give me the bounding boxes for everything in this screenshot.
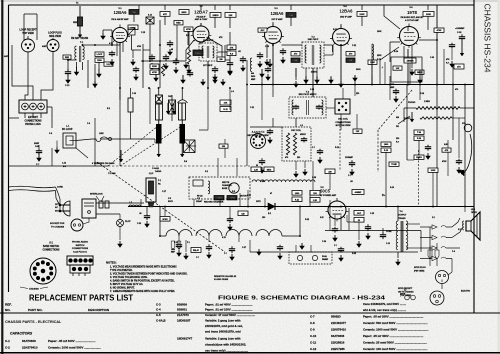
svg-text:K=1000 OHMS: K=1000 OHMS xyxy=(214,279,229,281)
svg-text:1ST IF AMP: 1ST IF AMP xyxy=(271,18,283,21)
svg-text:BASE: BASE xyxy=(222,187,228,190)
svg-text:LOOP PLUG: LOOP PLUG xyxy=(48,33,62,35)
svg-text:100MMF: 100MMF xyxy=(345,157,354,159)
svg-text:RED: RED xyxy=(73,22,78,24)
svg-text:C-9: C-9 xyxy=(310,328,315,332)
svg-text:MEG: MEG xyxy=(196,53,201,55)
svg-text:CHANGER: CHANGER xyxy=(222,184,232,187)
svg-text:C-22: C-22 xyxy=(352,45,356,47)
svg-text:PRONG LUGS: PRONG LUGS xyxy=(25,124,41,126)
svg-text:470K: 470K xyxy=(437,29,442,32)
svg-text:NOTES:: NOTES: xyxy=(106,261,117,265)
svg-text:20MF: 20MF xyxy=(34,143,40,145)
svg-text:21A7373: 21A7373 xyxy=(177,313,189,317)
svg-text:C-13: C-13 xyxy=(62,163,66,165)
svg-text:Paper: .01 mf 100V .........: Paper: .01 mf 100V .....................… xyxy=(205,308,253,312)
svg-text:CHASSIS PARTS - ELECTRICAL: CHASSIS PARTS - ELECTRICAL xyxy=(5,320,62,324)
svg-text:C-17: C-17 xyxy=(162,191,166,193)
svg-text:SPKR: SPKR xyxy=(471,212,477,214)
svg-text:0.15: 0.15 xyxy=(320,217,324,219)
svg-text:Y-2 S-2A: Y-2 S-2A xyxy=(108,172,116,175)
svg-text:C-35: C-35 xyxy=(370,213,374,215)
svg-text:A-1,2,3 & T-4: A-1,2,3 & T-4 xyxy=(252,131,265,134)
svg-text:DESCRIPTION: DESCRIPTION xyxy=(88,308,110,312)
svg-text:C-21: C-21 xyxy=(250,107,254,109)
svg-text:1MEG: 1MEG xyxy=(212,15,218,17)
svg-text:470K: 470K xyxy=(152,71,157,74)
svg-text:2ND IF AMP: 2ND IF AMP xyxy=(340,16,352,19)
svg-text:SOCKET FOR: SOCKET FOR xyxy=(50,223,65,225)
svg-text:RECORD CHANGER: RECORD CHANGER xyxy=(204,201,224,204)
svg-text:C-36: C-36 xyxy=(322,241,326,243)
svg-text:.05: .05 xyxy=(238,51,241,53)
svg-text:19T8: 19T8 xyxy=(407,10,418,15)
svg-text:84AT0606: 84AT0606 xyxy=(331,334,345,338)
svg-text:4700: 4700 xyxy=(137,45,141,48)
svg-text:220: 220 xyxy=(297,157,300,159)
svg-text:RESISTOR VALUES IN: RESISTOR VALUES IN xyxy=(214,275,237,278)
svg-text:22K: 22K xyxy=(228,15,232,17)
svg-text:PART NO.: PART NO. xyxy=(28,308,43,312)
svg-text:C-2: C-2 xyxy=(5,346,10,350)
svg-text:Ceramic: 1000 mmf 500V ......: Ceramic: 1000 mmf 500V .................… xyxy=(363,328,429,332)
svg-text:19D69174T: 19D69174T xyxy=(177,337,192,341)
svg-text:220K: 220K xyxy=(377,55,382,57)
svg-text:47K: 47K xyxy=(445,149,449,152)
svg-text:PILOT: PILOT xyxy=(125,221,131,223)
svg-text:BAND SWITCH: BAND SWITCH xyxy=(43,245,60,248)
svg-text:21K481377: 21K481377 xyxy=(331,321,346,325)
svg-text:10K: 10K xyxy=(349,60,353,62)
svg-text:OSC COIL: OSC COIL xyxy=(291,130,302,132)
svg-text:150: 150 xyxy=(262,217,265,219)
svg-text:osc trans only) ..............: osc trans only) ........................… xyxy=(205,349,248,353)
svg-text:Paper: .05 mf 200V .........: Paper: .05 mf 200V .....................… xyxy=(363,315,423,319)
svg-text:R-13: R-13 xyxy=(335,147,339,149)
svg-text:C-33: C-33 xyxy=(137,223,141,225)
svg-text:C-5: C-5 xyxy=(156,313,161,317)
svg-text:C-26: C-26 xyxy=(260,181,264,183)
svg-text:RP-2A: RP-2A xyxy=(197,195,203,198)
svg-text:REF.: REF. xyxy=(5,303,12,307)
svg-text:Paper: .01 mf 400V .........: Paper: .01 mf 400V .....................… xyxy=(205,303,253,307)
svg-text:3.2: 3.2 xyxy=(432,217,435,219)
svg-text:220: 220 xyxy=(356,93,359,95)
svg-text:Ceramic: 100 mmf 500V .......: Ceramic: 100 mmf 500V ..................… xyxy=(363,347,428,351)
svg-text:+: + xyxy=(381,65,384,70)
svg-text:AMP: AMP xyxy=(42,45,47,48)
svg-text:68: 68 xyxy=(171,49,173,51)
svg-text:RED: RED xyxy=(65,57,70,59)
svg-text:100K: 100K xyxy=(370,62,375,64)
svg-text:BOTTOM VIEW: BOTTOM VIEW xyxy=(336,125,351,127)
svg-text:C-8: C-8 xyxy=(49,133,52,135)
svg-text:100K: 100K xyxy=(426,14,432,16)
svg-text:TRANS: TRANS xyxy=(398,217,406,220)
svg-text:FM AUDIO DET, AM DET: FM AUDIO DET, AM DET xyxy=(401,16,425,19)
svg-text:C-7: C-7 xyxy=(310,315,315,319)
svg-text:1 MEG: 1 MEG xyxy=(424,101,430,103)
svg-text:AMP & CONV: AMP & CONV xyxy=(195,18,208,21)
svg-text:470K: 470K xyxy=(186,28,191,31)
svg-text:CONNECTIONS: CONNECTIONS xyxy=(25,120,42,122)
svg-text:P-1: P-1 xyxy=(187,242,190,244)
svg-text:L-6: L-6 xyxy=(231,91,234,93)
svg-text:3.2: 3.2 xyxy=(458,229,461,231)
svg-text:ELECTRO: ELECTRO xyxy=(461,291,471,293)
svg-text:100K: 100K xyxy=(377,31,382,33)
svg-text:21K678410: 21K678410 xyxy=(331,328,346,332)
svg-text:47: 47 xyxy=(270,192,272,195)
svg-text:ZENER: ZENER xyxy=(407,61,414,63)
svg-text:SPKR RECEPT: SPKR RECEPT xyxy=(398,288,413,290)
svg-text:C-?: C-? xyxy=(334,245,337,247)
svg-text:21BV7286: 21BV7286 xyxy=(331,347,345,351)
svg-text:47K: 47K xyxy=(163,13,167,16)
svg-text:C-1: C-1 xyxy=(5,339,10,343)
svg-text:L-5: L-5 xyxy=(300,125,303,127)
svg-text:P-1: P-1 xyxy=(158,180,161,182)
svg-text:10K: 10K xyxy=(224,103,228,105)
svg-text:BC LOOP: BC LOOP xyxy=(62,129,73,131)
svg-text:CHASSIS HS-234: CHASSIS HS-234 xyxy=(483,4,492,74)
svg-text:8S9801: 8S9801 xyxy=(177,308,187,312)
svg-text:470K: 470K xyxy=(442,160,447,163)
svg-text:455KC: 455KC xyxy=(300,133,307,136)
svg-text:12BA7: 12BA7 xyxy=(194,10,208,15)
svg-text:OUTPUT: OUTPUT xyxy=(398,215,407,217)
svg-text:.05: .05 xyxy=(139,213,142,215)
svg-text:C-3: C-3 xyxy=(156,303,161,307)
svg-text:trans 24K691879, mtd 500V ....: trans 24K691879, mtd 500V ........ xyxy=(363,302,406,306)
svg-text:SWITCH: SWITCH xyxy=(76,245,85,247)
svg-text:FIGURE 9. SCHEMATIC DIAGRAM -: FIGURE 9. SCHEMATIC DIAGRAM - HS-234 xyxy=(218,296,386,302)
svg-text:470: 470 xyxy=(285,156,288,159)
svg-text:1MEG: 1MEG xyxy=(416,157,422,159)
svg-text:AVC: AVC xyxy=(260,29,265,32)
svg-text:MEG: MEG xyxy=(267,169,272,171)
svg-text:Ceramic: 1000 mmf 500V ......: Ceramic: 1000 mmf 500V .................… xyxy=(48,346,101,350)
svg-text:(TOP VIEW): (TOP VIEW) xyxy=(400,295,411,297)
svg-text:R-11: R-11 xyxy=(333,29,337,31)
svg-text:12BA6: 12BA6 xyxy=(113,10,127,15)
svg-text:R-22: R-22 xyxy=(305,219,309,221)
svg-text:Variable: 2 gang (use with: Variable: 2 gang (use with xyxy=(205,337,241,341)
svg-text:FM: FM xyxy=(396,126,399,128)
svg-text:12BA7: 12BA7 xyxy=(196,200,203,203)
svg-text:MMF: MMF xyxy=(171,252,175,254)
svg-text:R-8: R-8 xyxy=(184,161,187,163)
svg-text:C-12: C-12 xyxy=(310,347,317,351)
svg-text:C-37: C-37 xyxy=(242,247,246,249)
svg-text:R-18: R-18 xyxy=(420,93,424,95)
svg-text:TONE: TONE xyxy=(391,164,397,166)
svg-text:117V: 117V xyxy=(55,204,60,206)
svg-text:R-16: R-16 xyxy=(377,59,381,61)
svg-text:12BA6: 12BA6 xyxy=(270,11,284,16)
svg-text:CAPACITORS: CAPACITORS xyxy=(10,332,33,336)
svg-text:24K691878, mtd gold & red,: 24K691878, mtd gold & red, xyxy=(205,324,243,328)
svg-text:CONNECTIONS: CONNECTIONS xyxy=(72,248,89,250)
svg-text:10K: 10K xyxy=(294,60,298,62)
svg-text:S-2: S-2 xyxy=(205,171,208,173)
svg-text:AM: AM xyxy=(396,116,399,119)
svg-text:100K: 100K xyxy=(431,170,436,172)
svg-text:40MMF: 40MMF xyxy=(355,191,363,194)
svg-text:C-15: C-15 xyxy=(141,32,145,34)
svg-text:12K: 12K xyxy=(356,131,360,133)
svg-text:wht & blk, osc trans only) ...: wht & blk, osc trans only) ........... xyxy=(362,308,406,312)
svg-text:Paper: .05 mf 400V .........: Paper: .05 mf 400V .....................… xyxy=(363,334,423,338)
svg-text:E-2: E-2 xyxy=(107,108,110,110)
svg-text:19D69187: 19D69187 xyxy=(177,319,191,323)
svg-text:B-1: B-1 xyxy=(63,166,66,168)
svg-text:859823: 859823 xyxy=(331,315,341,319)
svg-text:SECTIONS TOP VIEW: SECTIONS TOP VIEW xyxy=(247,135,268,137)
svg-text:RED: RED xyxy=(176,23,181,25)
svg-text:SPKR PLUG: SPKR PLUG xyxy=(414,267,426,269)
svg-text:& 1ST AF AMP: & 1ST AF AMP xyxy=(405,19,419,22)
svg-text:C-28: C-28 xyxy=(312,177,316,179)
svg-text:LINK: LINK xyxy=(99,133,104,135)
svg-text:C-9: C-9 xyxy=(87,123,90,125)
svg-text:CORD: CORD xyxy=(57,187,63,189)
svg-text:SIDE VIEW: SIDE VIEW xyxy=(49,36,62,38)
svg-text:C-4: C-4 xyxy=(156,308,161,312)
svg-text:Ceramic: 500 mmf 500V .......: Ceramic: 500 mmf 500V ..................… xyxy=(363,321,428,325)
svg-text:and trans 24K691879, mtd: and trans 24K691879, mtd xyxy=(205,330,241,334)
svg-text:Variable: 2 gang (use with: Variable: 2 gang (use with xyxy=(205,319,241,323)
svg-text:FM-AM IF: FM-AM IF xyxy=(197,15,207,18)
svg-text:S-2A PLUG &: S-2A PLUG & xyxy=(73,250,87,253)
svg-text:C-?: C-? xyxy=(224,253,227,255)
svg-text:FM & AM RF AMP: FM & AM RF AMP xyxy=(111,18,129,21)
svg-text:8S9809: 8S9809 xyxy=(177,303,187,307)
svg-text:+100MMF: +100MMF xyxy=(455,28,465,30)
svg-text:SEE TIE: SEE TIE xyxy=(222,182,230,184)
svg-text:470: 470 xyxy=(455,88,458,91)
svg-text:CONE: CONE xyxy=(386,231,392,233)
svg-text:3RD FM IF 455KC: 3RD FM IF 455KC xyxy=(298,93,317,96)
svg-text:C-16: C-16 xyxy=(132,93,136,95)
svg-text:TV CHASSIS: TV CHASSIS xyxy=(51,225,65,228)
svg-text:1.2K: 1.2K xyxy=(254,169,259,171)
svg-text:460: 460 xyxy=(251,72,254,75)
svg-text:GANG: GANG xyxy=(155,170,162,173)
svg-text:PHONO: PHONO xyxy=(408,102,416,104)
svg-text:10K: 10K xyxy=(396,68,400,70)
svg-text:NO.: NO. xyxy=(5,308,11,312)
svg-text:ANT: ANT xyxy=(4,55,9,58)
svg-text:100K: 100K xyxy=(359,14,365,16)
svg-text:47K: 47K xyxy=(230,46,234,49)
svg-text:ON TV CHASSIS: ON TV CHASSIS xyxy=(398,290,414,293)
svg-text:1.2K: 1.2K xyxy=(313,200,318,202)
svg-text:47K: 47K xyxy=(457,66,461,69)
svg-text:MEG: MEG xyxy=(182,12,187,14)
svg-text:C-10: C-10 xyxy=(386,243,390,245)
svg-text:OSC: OSC xyxy=(168,96,173,98)
svg-text:Paper: .05 mf 400V .........: Paper: .05 mf 400V .....................… xyxy=(48,339,96,343)
svg-text:CONNECTIONS: CONNECTIONS xyxy=(335,122,351,124)
svg-text:5000: 5000 xyxy=(251,76,255,78)
svg-text:C-?: C-? xyxy=(196,257,199,259)
svg-text:1ST FM IF: 1ST FM IF xyxy=(203,65,213,67)
svg-text:C-19: C-19 xyxy=(265,46,269,48)
svg-text:Ceramic: 25 mmf 500V ........: Ceramic: 25 mmf 500V ...................… xyxy=(363,341,427,345)
svg-text:60CY: 60CY xyxy=(55,210,61,212)
svg-text:R-5: R-5 xyxy=(232,191,235,193)
svg-text:INTERLOCK: INTERLOCK xyxy=(90,194,103,196)
svg-text:C-6A,B: C-6A,B xyxy=(156,319,166,323)
svg-text:330: 330 xyxy=(396,138,399,140)
svg-text:50MMF: 50MMF xyxy=(322,259,329,261)
svg-text:C-10: C-10 xyxy=(310,334,317,338)
svg-text:C-?: C-? xyxy=(312,147,315,149)
svg-text:REPLACEMENT PARTS LIST: REPLACEMENT PARTS LIST xyxy=(29,294,133,303)
svg-text:(PIN VIEW): (PIN VIEW) xyxy=(414,270,425,272)
svg-text:220K: 220K xyxy=(152,66,157,68)
svg-text:LOOP: LOOP xyxy=(97,54,103,56)
svg-text:.05: .05 xyxy=(350,181,353,183)
svg-text:SPKR: SPKR xyxy=(162,219,168,221)
svg-text:C-?: C-? xyxy=(348,175,351,177)
svg-text:R-19: R-19 xyxy=(390,187,394,189)
svg-text:CONNECTIONS: CONNECTIONS xyxy=(43,249,60,251)
svg-text:OSC COIL: OSC COIL xyxy=(338,119,349,121)
svg-text:21K678410: 21K678410 xyxy=(22,346,38,350)
svg-text:12BA6: 12BA6 xyxy=(339,9,353,14)
svg-text:C-8: C-8 xyxy=(310,321,315,325)
svg-text:4 TRIMMERS ON GANG: 4 TRIMMERS ON GANG xyxy=(92,162,115,165)
svg-text:50C5: 50C5 xyxy=(320,188,331,193)
svg-text:CHASSIS: CHASSIS xyxy=(29,288,39,291)
svg-text:R-25: R-25 xyxy=(352,253,356,255)
svg-text:PHONO-RADIO: PHONO-RADIO xyxy=(72,241,88,244)
svg-text:21K28816: 21K28816 xyxy=(331,341,345,345)
svg-text:Ceramic: 47 mmf 500V ........: Ceramic: 47 mmf 500V ...................… xyxy=(205,313,255,317)
svg-text:84AT0606: 84AT0606 xyxy=(22,339,36,343)
svg-text:C-30: C-30 xyxy=(430,57,434,59)
svg-text:chassis)(use with 24DK91563,: chassis)(use with 24DK91563, xyxy=(205,343,246,347)
svg-text:2ND FM IF: 2ND FM IF xyxy=(308,39,319,41)
svg-text:AF POWER AMP: AF POWER AMP xyxy=(320,194,337,197)
svg-text:RELAY: RELAY xyxy=(193,249,200,252)
svg-text:C-6A,B: C-6A,B xyxy=(152,167,159,170)
svg-text:C-11: C-11 xyxy=(310,341,316,345)
